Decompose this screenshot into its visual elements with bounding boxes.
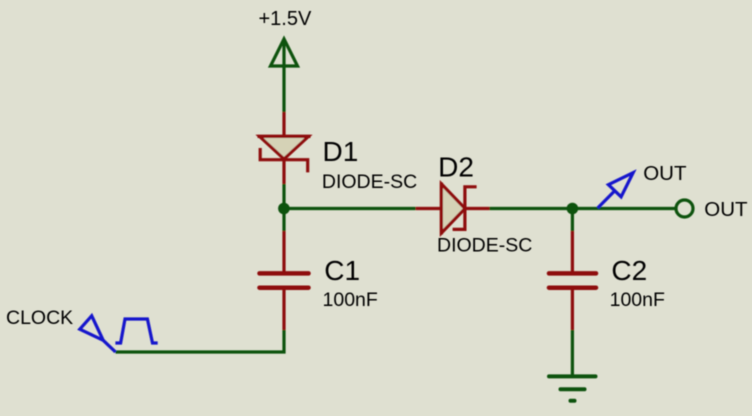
svg-text:D2: D2 (438, 152, 474, 183)
wire (C2 to ground) (571, 330, 574, 375)
svg-text:+1.5V: +1.5V (259, 8, 312, 30)
terminal OUT (676, 200, 693, 217)
svg-text:DIODE-SC: DIODE-SC (437, 235, 532, 257)
wire (C1 bottom pin) (282, 290, 285, 331)
wire (D2 cathode pin) (465, 207, 490, 210)
node A (junction) (278, 203, 290, 215)
svg-text:DIODE-SC: DIODE-SC (322, 171, 417, 193)
clock generator marker (80, 316, 158, 352)
wire (elbow to clock input) (116, 330, 285, 352)
svg-text:D1: D1 (323, 136, 359, 167)
power terminal +1.5V (271, 39, 298, 112)
wire (C2 top pin) (571, 231, 574, 272)
diode D1 (258, 136, 311, 172)
wire (D2 to OUT terminal) (490, 207, 677, 210)
wire (C1 top pin) (282, 231, 285, 272)
wire (node B down) (571, 209, 574, 232)
svg-text:C1: C1 (324, 255, 360, 286)
diode D2 (441, 183, 476, 235)
wire (node A to D2) (284, 207, 416, 210)
wire (C2 bottom pin) (571, 290, 574, 331)
node B (junction) (567, 203, 579, 215)
svg-text:100nF: 100nF (323, 289, 378, 311)
svg-text:OUT: OUT (643, 162, 687, 185)
svg-text:OUT: OUT (704, 198, 748, 221)
wire (D1 anode pin) (282, 112, 285, 137)
wire (D1 cathode pin) (282, 160, 285, 184)
ground (549, 376, 596, 400)
probe OUT (arrow) (598, 173, 633, 208)
svg-text:100nF: 100nF (610, 289, 665, 311)
capacitor C1 (260, 273, 309, 287)
wire (vertical through node A) (282, 184, 285, 231)
svg-text:CLOCK: CLOCK (6, 307, 73, 329)
svg-text:C2: C2 (611, 255, 647, 286)
capacitor C2 (549, 273, 596, 287)
wire (D2 anode pin) (416, 207, 441, 210)
